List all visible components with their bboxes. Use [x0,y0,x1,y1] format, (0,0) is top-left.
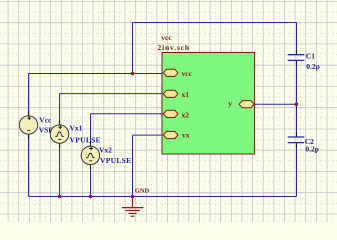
svg-text:Vx2: Vx2 [99,146,112,155]
svg-text:0.2p: 0.2p [305,145,319,154]
svg-text:vx: vx [182,130,190,139]
svg-text:C1: C1 [306,52,315,61]
svg-text:VPULSE: VPULSE [100,156,131,165]
svg-text:VPULSE: VPULSE [70,135,101,144]
svg-text:x1: x1 [182,90,190,99]
svg-text:Vx1: Vx1 [70,124,83,133]
svg-text:vcc: vcc [161,33,172,42]
svg-text:y: y [228,99,232,108]
svg-text:Vcc: Vcc [39,116,52,125]
svg-text:0.2p: 0.2p [306,62,320,71]
svg-text:vcc: vcc [182,69,193,78]
svg-text:GND: GND [135,188,150,195]
svg-text:2inv.sch: 2inv.sch [158,43,190,52]
svg-text:x2: x2 [182,110,190,119]
